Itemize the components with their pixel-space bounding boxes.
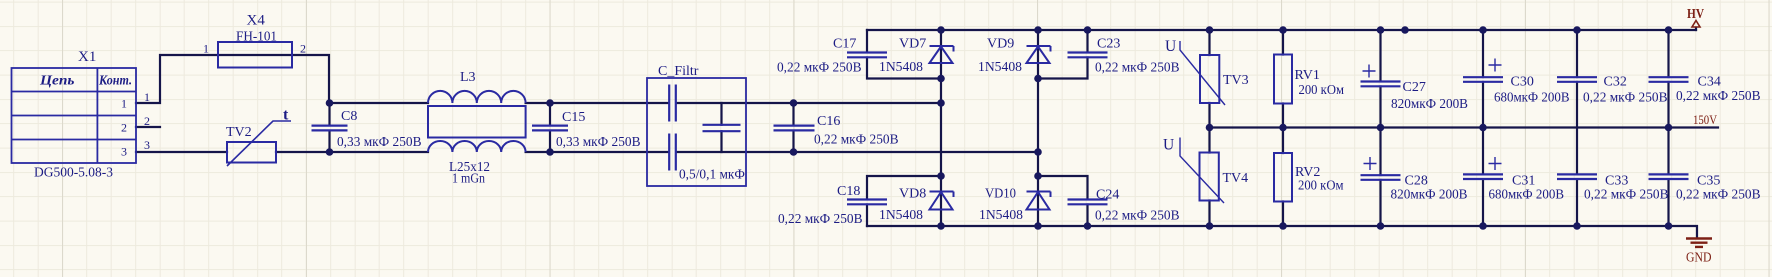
svg-text:0,22 мкФ 250В: 0,22 мкФ 250В	[1676, 188, 1761, 203]
fuse X4 body	[218, 42, 292, 68]
svg-text:200 кОм: 200 кОм	[1299, 83, 1345, 98]
C_Filtr cap on AC1 plates	[669, 85, 676, 122]
svg-text:C17: C17	[833, 37, 856, 52]
wire mid rail 150V	[1210, 126, 1719, 128]
svg-text:C35: C35	[1697, 174, 1720, 189]
svg-text:VD10: VD10	[985, 187, 1016, 202]
svg-text:C18: C18	[837, 184, 860, 199]
svg-text:0,5/0,1 мкФ: 0,5/0,1 мкФ	[679, 168, 745, 183]
junction dots mid rail	[1206, 124, 1214, 132]
wire X1 pin3 to TV2	[136, 151, 227, 153]
wire TV2 to L3 bottom (AC2)	[276, 151, 428, 153]
svg-text:C15: C15	[562, 110, 585, 125]
svg-text:0,22 мкФ 250В: 0,22 мкФ 250В	[778, 212, 863, 227]
svg-text:1: 1	[144, 90, 150, 104]
svg-text:2: 2	[144, 114, 150, 128]
svg-text:0,22 мкФ 250В: 0,22 мкФ 250В	[1095, 209, 1180, 224]
capacitor C31 plus	[1489, 157, 1502, 170]
svg-text:t: t	[283, 107, 289, 124]
wire AC2 L3 to C_Filtr	[526, 151, 669, 153]
capacitor C32 plates	[1557, 77, 1597, 82]
svg-text:Конт.: Конт.	[98, 74, 132, 89]
capacitor C27 plus	[1363, 65, 1376, 78]
wire AC1 C8 node to L3	[329, 102, 428, 104]
choke L3 core	[428, 106, 526, 138]
capacitor C17 plates	[847, 53, 887, 58]
diode VD8	[930, 192, 954, 210]
junction dots diode bridge	[937, 75, 945, 83]
svg-text:C16: C16	[817, 114, 840, 129]
wire VD7/VD8 string	[940, 30, 942, 226]
svg-text:1N5408: 1N5408	[879, 208, 923, 223]
wire TV4 leads	[1208, 128, 1210, 227]
svg-text:TV4: TV4	[1223, 171, 1249, 186]
wire VD9/VD10 string	[1037, 30, 1039, 226]
resistor RV2 body	[1274, 153, 1292, 202]
svg-text:C32: C32	[1604, 75, 1627, 90]
wire C24 branch	[1038, 176, 1088, 226]
svg-text:680мкФ 200В: 680мкФ 200В	[1494, 91, 1570, 106]
svg-text:C23: C23	[1097, 37, 1120, 52]
svg-text:2: 2	[300, 42, 306, 56]
svg-text:820мкФ 200В: 820мкФ 200В	[1391, 188, 1468, 203]
wire C17 branch	[867, 30, 941, 79]
wire AC1 L3 to C_Filtr	[526, 102, 669, 104]
wire TV3 leads	[1208, 30, 1210, 128]
capacitor C31 plates	[1463, 174, 1503, 179]
capacitor C34 plates	[1649, 77, 1689, 82]
svg-text:C30: C30	[1511, 75, 1534, 90]
svg-text:820мкФ 200В: 820мкФ 200В	[1391, 97, 1468, 112]
svg-text:0,33 мкФ 250В: 0,33 мкФ 250В	[337, 135, 422, 150]
svg-text:Цепь: Цепь	[39, 74, 75, 89]
svg-text:FH-101: FH-101	[236, 30, 277, 45]
wire X1 pin1 to fuse X4 and down to C8 node	[136, 55, 329, 103]
wire C18 branch	[867, 176, 941, 226]
capacitor C30 plus	[1489, 59, 1502, 72]
svg-text:1N5408: 1N5408	[979, 208, 1023, 223]
capacitor C8 plates	[312, 126, 348, 131]
svg-text:U: U	[1163, 137, 1174, 154]
capacitor C27 plates	[1361, 82, 1401, 87]
capacitor C18 plates	[847, 200, 887, 205]
resistor RV1 body	[1274, 55, 1292, 104]
C_Filtr middle cap plates	[703, 125, 741, 131]
svg-text:1: 1	[121, 97, 127, 111]
capacitor C16 plates	[774, 126, 815, 131]
svg-text:VD8: VD8	[899, 187, 926, 202]
wire C34 C35 string	[1667, 30, 1669, 226]
power port HV triangle	[1692, 21, 1700, 28]
junction dots AC2 line	[326, 148, 334, 156]
wire C32 C33 string	[1576, 30, 1578, 226]
diode VD9	[1027, 46, 1051, 63]
svg-text:1: 1	[203, 42, 209, 56]
svg-text:200 кОм: 200 кОм	[1298, 179, 1344, 194]
svg-text:1 mGn: 1 mGn	[452, 172, 485, 187]
svg-text:DG500-5.08-3: DG500-5.08-3	[34, 166, 113, 181]
capacitor C28 plus	[1364, 157, 1377, 170]
junction dots top rail	[937, 26, 945, 34]
wire C27 leads	[1379, 30, 1381, 128]
wire top DC rail	[867, 29, 1696, 31]
wire C_Filtr middle branch	[720, 103, 722, 152]
svg-text:1N5408: 1N5408	[978, 60, 1022, 75]
svg-text:X4: X4	[247, 13, 266, 29]
svg-text:680мкФ 200В: 680мкФ 200В	[1489, 188, 1565, 203]
capacitor C24 plates	[1068, 200, 1108, 205]
diode VD10	[1027, 192, 1051, 210]
svg-text:150V: 150V	[1693, 113, 1717, 127]
filter block C_Filtr box	[647, 78, 746, 186]
svg-text:C34: C34	[1698, 75, 1721, 90]
wire AC2 C_Filtr to VD9 node	[677, 151, 1039, 153]
svg-text:2: 2	[121, 121, 127, 135]
wire C23 branch	[1038, 30, 1088, 79]
ground GND symbol	[1686, 239, 1712, 247]
capacitor C15 plates	[532, 126, 568, 131]
svg-text:TV3: TV3	[1223, 73, 1249, 88]
wire C30 leads	[1482, 30, 1484, 128]
junction dots bottom rail	[937, 222, 945, 230]
wire AC1 C_Filtr to VD7 node	[677, 102, 942, 104]
junction dots AC1 line	[326, 99, 334, 107]
svg-text:0,22 мкФ 250В: 0,22 мкФ 250В	[814, 133, 899, 148]
svg-text:VD9: VD9	[987, 37, 1014, 52]
diode VD7	[930, 46, 954, 63]
svg-text:3: 3	[121, 145, 127, 159]
svg-text:1N5408: 1N5408	[879, 60, 923, 75]
svg-text:TV2: TV2	[226, 125, 252, 140]
svg-text:C31: C31	[1512, 174, 1535, 189]
svg-text:0,33 мкФ 250В: 0,33 мкФ 250В	[556, 135, 641, 150]
svg-text:HV: HV	[1687, 6, 1704, 21]
varistor TV3 body	[1180, 41, 1225, 105]
svg-text:L3: L3	[460, 70, 476, 85]
C_Filtr cap on AC2 plates	[669, 134, 676, 171]
svg-text:VD7: VD7	[899, 37, 926, 52]
svg-text:0,22 мкФ 250В: 0,22 мкФ 250В	[777, 61, 862, 76]
svg-text:C27: C27	[1403, 80, 1426, 95]
svg-text:0,22 мкФ 250В: 0,22 мкФ 250В	[1095, 61, 1180, 76]
svg-text:0,22 мкФ 250В: 0,22 мкФ 250В	[1583, 91, 1668, 106]
capacitor C28 plates	[1361, 175, 1401, 180]
wire bottom DC rail to GND	[867, 226, 1697, 237]
wire RV2 leads	[1282, 128, 1284, 227]
capacitor C30 plates	[1463, 77, 1503, 82]
capacitor C33 plates	[1557, 174, 1597, 179]
wire C16 leads	[792, 103, 794, 152]
wire C28 leads	[1379, 128, 1381, 227]
connector X1 table	[12, 68, 137, 163]
choke L3 windings	[428, 91, 526, 152]
svg-text:GND: GND	[1686, 250, 1712, 265]
svg-text:C_Filtr: C_Filtr	[658, 64, 699, 79]
wire X1 pin2 stub	[136, 126, 160, 128]
capacitor C23 plates	[1068, 53, 1108, 58]
svg-text:X1: X1	[78, 49, 96, 65]
svg-text:C33: C33	[1605, 174, 1628, 189]
svg-text:U: U	[1165, 38, 1176, 55]
svg-text:0,22 мкФ 250В: 0,22 мкФ 250В	[1676, 89, 1761, 104]
varistor TV4 body	[1180, 138, 1224, 204]
wire RV1 leads	[1282, 30, 1284, 128]
wire HV stub	[1695, 28, 1697, 31]
svg-text:3: 3	[144, 138, 150, 152]
svg-text:C24: C24	[1096, 188, 1119, 203]
svg-text:C8: C8	[341, 109, 357, 124]
wire C8 leads	[328, 103, 330, 152]
capacitor C35 plates	[1649, 174, 1689, 179]
wire C31 leads	[1482, 128, 1484, 227]
svg-text:RV1: RV1	[1295, 68, 1320, 83]
wire C15 leads	[549, 103, 551, 152]
svg-text:C28: C28	[1405, 174, 1428, 189]
thermistor TV2 body	[227, 121, 291, 166]
svg-text:0,22 мкФ 250В: 0,22 мкФ 250В	[1584, 188, 1669, 203]
